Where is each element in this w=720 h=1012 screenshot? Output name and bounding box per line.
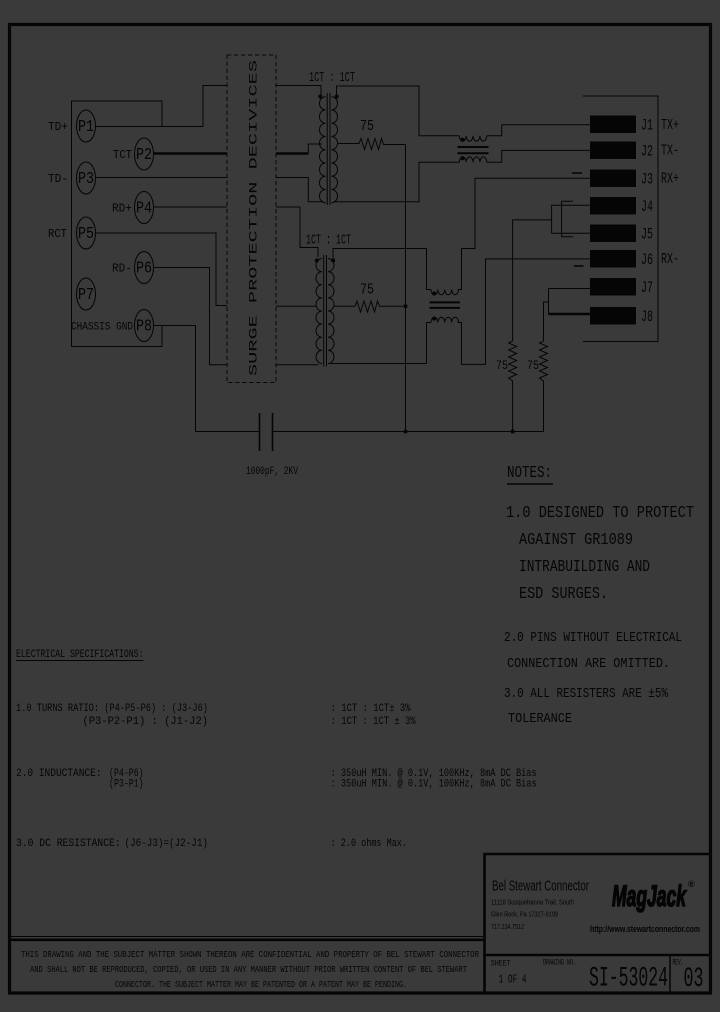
J5 block	[590, 225, 636, 243]
svg-text:1.0 DESIGNED TO PROTECT: 1.0 DESIGNED TO PROTECT	[506, 504, 694, 523]
svg-text:P3: P3	[78, 170, 94, 189]
svg-text:3.0 ALL RESISTERS ARE ±5%: 3.0 ALL RESISTERS ARE ±5%	[504, 687, 669, 702]
wire surge box to T1 primary bottom	[276, 178, 322, 202]
svg-text:J4: J4	[641, 198, 653, 216]
tick below J6	[574, 265, 584, 267]
bracket J7/J8	[549, 289, 591, 315]
svg-text:RD-: RD-	[112, 262, 132, 276]
svg-text:J2: J2	[641, 143, 653, 161]
svg-text:J6: J6	[641, 251, 653, 269]
svg-text:1CT : 1CT: 1CT : 1CT	[309, 70, 355, 86]
svg-text:: 350uH MIN. @ 0.1V, 100KHz, 8: : 350uH MIN. @ 0.1V, 100KHz, 8mA DC Bias	[331, 779, 537, 791]
svg-text:RD+: RD+	[112, 202, 132, 216]
transformer T1	[318, 93, 338, 205]
pin P1	[77, 110, 96, 142]
transformer T2	[315, 255, 335, 367]
svg-text:J1: J1	[641, 117, 653, 135]
svg-text:(P3-P1): (P3-P1)	[109, 779, 144, 791]
svg-text:SHEET: SHEET	[491, 960, 511, 969]
svg-text:INTRABUILDING AND: INTRABUILDING AND	[519, 558, 650, 577]
svg-text:THIS DRAWING AND THE SUBJECT M: THIS DRAWING AND THE SUBJECT MATTER SHOW…	[21, 950, 479, 960]
svg-text:MagJack: MagJack	[612, 880, 687, 913]
svg-text:http://www.stewartconnector.co: http://www.stewartconnector.com	[590, 924, 700, 934]
svg-text:P1: P1	[78, 118, 94, 137]
svg-text:3.0 DC RESISTANCE:: 3.0 DC RESISTANCE:	[16, 838, 121, 850]
svg-text:P8: P8	[136, 318, 152, 337]
svg-text:NOTES:: NOTES:	[507, 464, 552, 483]
wire surge box to T2 primary bottom	[276, 364, 319, 366]
svg-text:DRAWING NO.: DRAWING NO.	[543, 959, 576, 968]
svg-text:03: 03	[684, 964, 704, 995]
wire surge box to T1 primary top	[276, 86, 321, 97]
wire T2 secondary bottom to choke CH2 coil B	[331, 323, 432, 364]
tick above J3	[572, 172, 582, 174]
pin P6	[135, 252, 154, 284]
wire CH1 coil B out to J2	[487, 150, 590, 162]
pin P7	[77, 278, 96, 310]
wire CH2 coil B out to J6	[458, 259, 590, 365]
svg-text:717.234.7512: 717.234.7512	[491, 922, 524, 931]
svg-text:1000pF, 2KV: 1000pF, 2KV	[246, 466, 298, 478]
J8 block	[590, 307, 636, 325]
svg-text:J8: J8	[641, 308, 653, 326]
svg-text:Bel Stewart Connector: Bel Stewart Connector	[492, 879, 589, 895]
wire T1 secondary top to choke CH1 coil A	[337, 86, 460, 136]
svg-text:®: ®	[688, 879, 695, 889]
svg-text:ELECTRICAL SPECIFICATIONS:: ELECTRICAL SPECIFICATIONS:	[16, 649, 144, 661]
wire P2 to surge box (thick)	[154, 152, 227, 155]
resistor R2 75 (T2 secondary CT)	[334, 301, 406, 312]
svg-text:P6: P6	[136, 260, 152, 279]
svg-text:AND SHALL NOT BE REPRODUCED, C: AND SHALL NOT BE REPRODUCED, COPIED, OR …	[30, 965, 467, 975]
pin P2	[135, 138, 154, 170]
svg-text:TX-: TX-	[661, 143, 679, 160]
svg-text:CONNECTOR. THE SUBJECT MATTER: CONNECTOR. THE SUBJECT MATTER MAY BE PAT…	[115, 980, 407, 990]
RJ45 jack outline box	[583, 96, 658, 342]
svg-text:RCT: RCT	[48, 227, 67, 241]
svg-text:(P3-P2-P1) : (J1-J2): (P3-P2-P1) : (J1-J2)	[83, 716, 209, 728]
svg-text:P7: P7	[78, 286, 94, 305]
chassis ground rail	[273, 431, 544, 433]
svg-text:: 2.0 ohms Max.: : 2.0 ohms Max.	[331, 838, 407, 850]
resistor R3 75 (vertical)	[509, 220, 552, 432]
wire T2 secondary top to choke CH2 coil A	[333, 249, 431, 290]
wire CH1 coil A out to J1	[487, 125, 590, 136]
connector box P1-P8	[72, 101, 163, 347]
svg-text:1CT : 1CT: 1CT : 1CT	[306, 233, 351, 249]
wire P4 to surge box	[154, 206, 227, 208]
pin P3	[77, 162, 96, 194]
svg-text:75: 75	[496, 358, 508, 373]
choke CH2 (RX common mode)	[430, 290, 461, 323]
wire P5 to surge box	[96, 233, 227, 306]
wire surge box to T2 primary center tap	[276, 305, 317, 307]
wire J8 (thick)	[549, 313, 591, 316]
svg-text:TX+: TX+	[661, 117, 679, 134]
bracket J4/J5 outer	[552, 205, 590, 233]
svg-text:J5: J5	[641, 226, 653, 244]
svg-text:REV.: REV.	[673, 959, 684, 968]
svg-text:: 1CT : 1CT ± 3%: : 1CT : 1CT ± 3%	[331, 716, 416, 728]
svg-text:TCT: TCT	[113, 148, 132, 162]
svg-text:75: 75	[360, 118, 374, 135]
capacitor C1 plates	[259, 413, 261, 451]
resistor R1 75 (T1 secondary CT)	[338, 139, 406, 150]
svg-text:: 1CT : 1CT± 3%: : 1CT : 1CT± 3%	[331, 703, 411, 715]
wire P6 to surge box	[154, 268, 227, 365]
choke CH1 (TX common mode)	[458, 136, 489, 162]
svg-text:P5: P5	[78, 225, 94, 244]
surge protection box (dashed)	[227, 55, 276, 383]
wire CH2 coil A out to J3	[458, 178, 590, 289]
wire surge box to T1 primary center tap (thick)	[276, 152, 308, 155]
svg-text:CHASSIS GND: CHASSIS GND	[71, 322, 133, 334]
wire P8 to chassis rail	[154, 326, 260, 432]
svg-text:11118 Susquehanna Trail, South: 11118 Susquehanna Trail, South	[491, 898, 574, 907]
svg-text:AGAINST GR1089: AGAINST GR1089	[519, 531, 633, 550]
J6 block	[590, 250, 636, 268]
junction R2/R1-vertical	[404, 305, 408, 309]
junction rail/R3	[511, 430, 515, 434]
svg-text:2.0 INDUCTANCE:: 2.0 INDUCTANCE:	[16, 768, 102, 780]
svg-text:ESD SURGES.: ESD SURGES.	[519, 585, 608, 604]
svg-text:75: 75	[360, 282, 374, 299]
svg-text:TOLERANCE: TOLERANCE	[508, 712, 572, 727]
svg-text:1 OF 4: 1 OF 4	[499, 973, 527, 987]
wire surge box to T2 primary top	[276, 207, 318, 257]
svg-text:TD-: TD-	[48, 172, 68, 186]
svg-text:Glen Rock, Pa 17327-9199: Glen Rock, Pa 17327-9199	[491, 910, 558, 919]
wire R1 down to ground rail	[405, 145, 407, 432]
J7 block	[590, 278, 636, 296]
svg-text:1.0 TURNS RATIO: (P4-P5-P6) :: 1.0 TURNS RATIO: (P4-P5-P6) : (J3-J6)	[16, 703, 208, 715]
svg-text:P2: P2	[136, 146, 152, 165]
pin P5	[77, 217, 96, 249]
svg-text:SURGE PROTECTION DECIVICES: SURGE PROTECTION DECIVICES	[249, 59, 261, 376]
resistor R4 75 (vertical)	[540, 302, 549, 432]
svg-text:2.0 PINS WITHOUT ELECTRICAL: 2.0 PINS WITHOUT ELECTRICAL	[504, 631, 682, 646]
svg-text:CONNECTION ARE OMITTED.: CONNECTION ARE OMITTED.	[507, 657, 670, 672]
svg-text:RX+: RX+	[661, 171, 679, 188]
svg-text:TD+: TD+	[48, 120, 68, 134]
wire T1 secondary bottom to choke CH1 coil B	[334, 162, 459, 202]
svg-text:J3: J3	[641, 171, 653, 189]
wire P3 to surge box	[96, 177, 227, 179]
svg-text:P4: P4	[136, 200, 152, 219]
svg-text:RX-: RX-	[661, 251, 679, 268]
J2 block	[590, 142, 636, 160]
title block outline	[483, 853, 711, 856]
pin P8	[135, 310, 154, 342]
J3 block	[590, 170, 636, 188]
junction rail/R1-vertical	[404, 430, 408, 434]
J1 block	[590, 116, 636, 134]
wire P1 to surge box top rail	[96, 86, 227, 127]
svg-text:SI-53024: SI-53024	[589, 964, 668, 995]
bracket J4/J5 inner ticks	[562, 201, 573, 237]
pin P4	[135, 192, 154, 224]
J4 block	[590, 197, 636, 215]
svg-text:75: 75	[527, 358, 539, 373]
svg-text:(J6-J3)=(J2-J1): (J6-J3)=(J2-J1)	[125, 838, 209, 850]
disclaimer box top border	[8, 936, 483, 938]
svg-text:J7: J7	[641, 279, 653, 297]
